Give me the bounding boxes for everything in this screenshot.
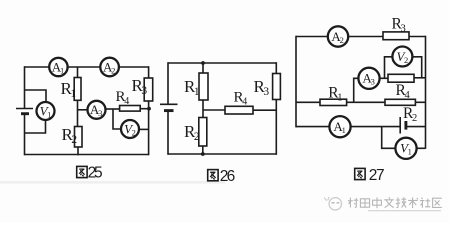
- svg-text:1: 1: [60, 65, 64, 75]
- watermark logo: [329, 198, 341, 210]
- svg-text:1: 1: [70, 88, 76, 100]
- voltmeter V1: [37, 102, 55, 120]
- wire: R2 bottom stub: [202, 146, 204, 154]
- wire: R4 to right rail c3: [414, 77, 426, 79]
- wire: circuit3 left rail: [295, 36, 297, 128]
- wire: V1 bottom connector: [25, 120, 46, 134]
- resistor R3 c3: [383, 32, 409, 40]
- battery B2: [160, 103, 178, 105]
- svg-text:3: 3: [98, 108, 102, 118]
- resistor R2 c3: [385, 99, 415, 105]
- wire: circuit2 top rail: [168, 62, 276, 64]
- ammeter A2: [100, 58, 119, 77]
- wire: R2 to right rail c3: [415, 101, 425, 103]
- svg-text:1: 1: [342, 125, 346, 135]
- wire: A3 to R4 c3: [380, 77, 389, 79]
- svg-text:1: 1: [408, 147, 412, 157]
- watermark underline: [368, 210, 441, 212]
- svg-text:4: 4: [124, 96, 129, 107]
- watermark char cun: [348, 198, 358, 208]
- svg-text:1: 1: [194, 86, 200, 98]
- wire: A1 row left: [296, 126, 330, 128]
- wire: R1 to R2 row: [347, 101, 385, 103]
- svg-text:2: 2: [111, 65, 115, 75]
- wire: circuit3 top rail: [296, 36, 426, 38]
- caption fig26: [208, 170, 218, 181]
- svg-text:4: 4: [242, 97, 247, 108]
- wire: R1 top stub: [202, 63, 204, 73]
- faint artifact band: [0, 181, 225, 184]
- battery B1: [16, 108, 33, 110]
- watermark char zhong: [373, 197, 382, 208]
- wire: R1 to R2 segment: [77, 100, 79, 126]
- watermark char wen: [384, 197, 394, 207]
- svg-text:3: 3: [141, 85, 147, 97]
- wire: R1-R2 segment: [202, 100, 204, 118]
- caption fig25: [77, 166, 87, 177]
- svg-text:1: 1: [337, 93, 342, 104]
- voltmeter V2 c3: [392, 47, 412, 67]
- battery B3: [399, 117, 401, 134]
- svg-text:2: 2: [412, 113, 417, 124]
- wire: V2 left tap: [113, 109, 121, 129]
- wire: circuit1 left rail upper: [24, 66, 26, 108]
- svg-text:27: 27: [369, 167, 385, 184]
- node junction bottom: [201, 152, 205, 156]
- node junction J1: [147, 107, 151, 111]
- svg-text:2: 2: [340, 35, 344, 45]
- ammeter A3 c3: [358, 68, 379, 89]
- watermark char she: [420, 198, 431, 208]
- ammeter A1 c3: [329, 116, 350, 137]
- voltmeter V2: [121, 120, 139, 138]
- wire: A3 branch: [78, 109, 89, 111]
- wire: V2 left tap c3: [385, 57, 393, 79]
- wire: R4 to right rail: [253, 109, 276, 111]
- svg-text:1: 1: [47, 109, 51, 119]
- resistor R2 c2: [199, 118, 207, 147]
- ammeter A1: [49, 58, 67, 76]
- resistor R1 c3: [320, 99, 347, 105]
- wire: R1 row left: [296, 101, 320, 103]
- resistor R4 c2: [225, 106, 253, 114]
- svg-text:3: 3: [371, 77, 375, 87]
- wire: circuit2 bottom rail: [168, 153, 276, 155]
- wire: V2 right tap c3: [413, 57, 422, 78]
- wire: R1 branch top stub: [77, 67, 79, 78]
- resistor R1 c2: [199, 73, 208, 100]
- wire: A3 to R4: [106, 108, 120, 110]
- wire: V1 top connector: [25, 90, 47, 103]
- wire: R2 bottom stub: [77, 147, 79, 155]
- resistor R1: [74, 78, 81, 101]
- resistor R4: [120, 106, 141, 112]
- wire: circuit2 right rail upper: [275, 62, 277, 73]
- wire: A3 left branch c3: [354, 78, 359, 102]
- watermark char qu: [433, 198, 442, 207]
- wire: A1 to battery: [351, 126, 400, 128]
- svg-text:26: 26: [220, 168, 236, 185]
- svg-text:2: 2: [404, 55, 408, 65]
- wire: R4 branch c2: [203, 109, 225, 111]
- svg-text:2: 2: [194, 131, 200, 143]
- node junction top: [201, 61, 205, 65]
- wire: V1 to right rail c3: [417, 147, 426, 149]
- voltmeter V1 c3: [395, 138, 416, 159]
- ammeter A3: [88, 101, 106, 119]
- wire: battery to right rail: [406, 126, 426, 128]
- wire: circuit1 top-right corner down: [148, 66, 150, 78]
- wire: circuit1 right rail lower: [148, 101, 150, 155]
- svg-text:2: 2: [132, 127, 136, 137]
- wire: circuit1 left rail lower: [24, 115, 26, 156]
- watermark char shu: [408, 197, 418, 208]
- watermark char tian: [360, 199, 369, 207]
- wire: V2 right connector: [139, 128, 149, 130]
- resistor R3 c2: [273, 74, 281, 100]
- svg-text:2: 2: [71, 134, 77, 146]
- wire: R4 to junction: [140, 108, 149, 110]
- svg-text:3: 3: [263, 86, 269, 98]
- wire: V1 branch c3: [382, 127, 396, 149]
- wire: circuit2 left rail upper: [167, 62, 169, 104]
- resistor R2: [75, 127, 83, 148]
- wire: circuit3 right rail: [425, 36, 427, 149]
- svg-text:25: 25: [88, 165, 103, 182]
- resistor R4 c3: [388, 74, 414, 82]
- resistor R3: [144, 78, 153, 101]
- wire: circuit2 right rail lower: [275, 100, 277, 155]
- watermark char ji: [396, 197, 406, 207]
- caption fig27: [355, 168, 365, 179]
- svg-text:3: 3: [401, 24, 406, 35]
- wire: circuit2 left rail lower: [167, 112, 169, 155]
- ammeter A2 c3: [328, 26, 348, 46]
- wire: circuit1 bottom rail: [25, 154, 149, 156]
- wire: circuit1 top rail: [25, 66, 149, 68]
